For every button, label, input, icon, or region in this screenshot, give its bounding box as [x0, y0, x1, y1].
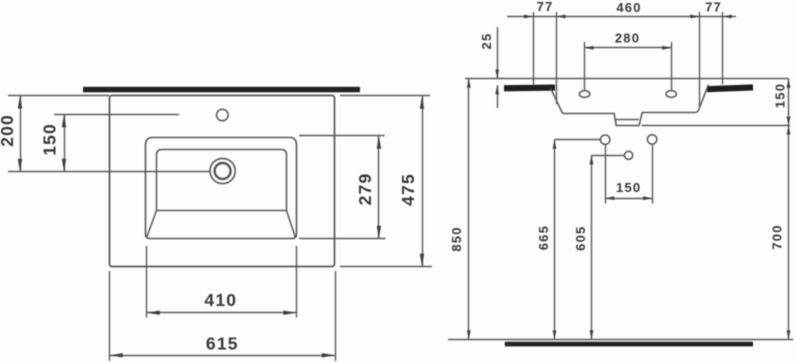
- svg-text:150: 150: [40, 123, 60, 156]
- svg-text:279: 279: [355, 173, 375, 206]
- svg-text:77: 77: [705, 0, 722, 15]
- svg-text:665: 665: [536, 225, 551, 250]
- svg-text:410: 410: [204, 290, 237, 310]
- svg-text:200: 200: [0, 114, 17, 147]
- svg-text:25: 25: [479, 33, 494, 50]
- svg-text:850: 850: [449, 226, 464, 251]
- svg-text:77: 77: [537, 0, 554, 14]
- svg-text:475: 475: [398, 173, 418, 206]
- svg-text:700: 700: [770, 224, 785, 249]
- svg-text:460: 460: [616, 0, 641, 15]
- svg-text:605: 605: [573, 226, 588, 251]
- svg-text:615: 615: [206, 333, 239, 353]
- svg-text:150: 150: [616, 180, 641, 195]
- svg-text:280: 280: [615, 30, 640, 45]
- svg-text:150: 150: [773, 83, 788, 108]
